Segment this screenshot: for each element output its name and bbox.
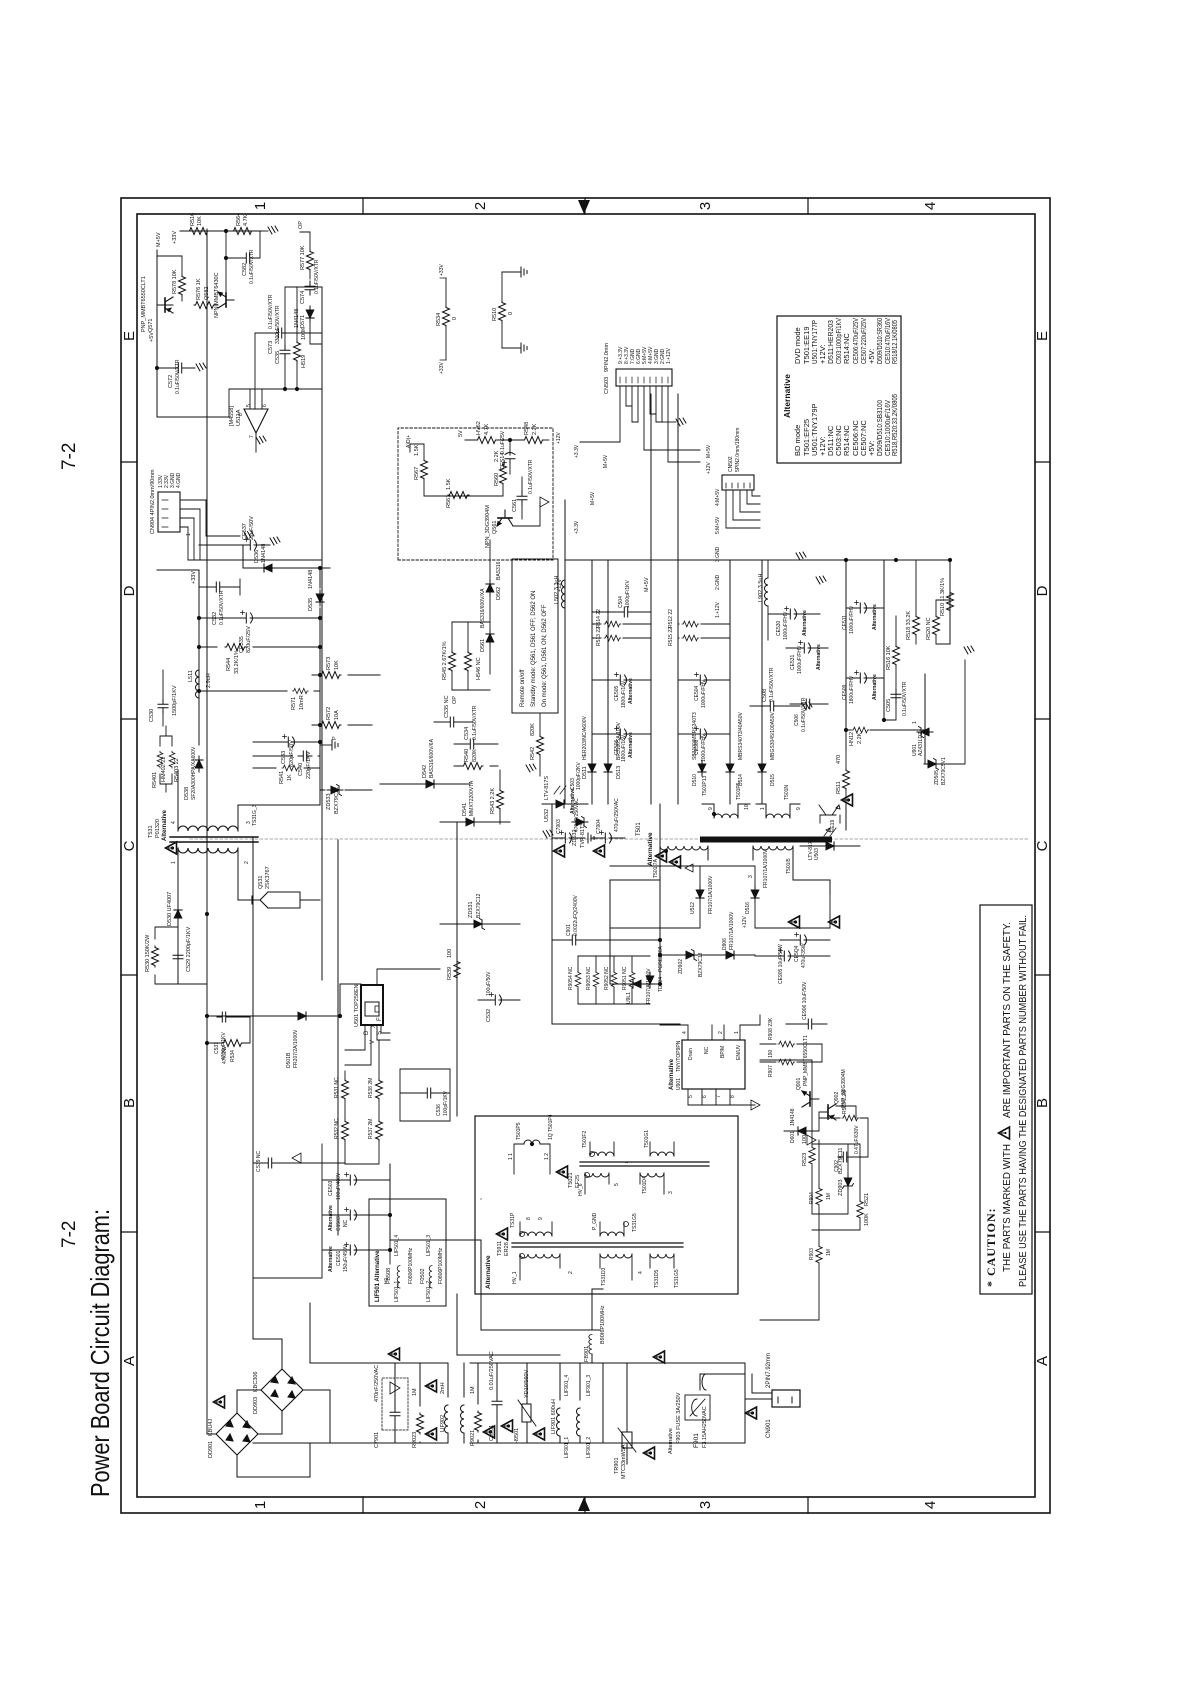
svg-text:2: 2 [568, 1271, 574, 1274]
svg-text:0.1uF/50V/XTR: 0.1uF/50V/XTR [801, 697, 807, 732]
CN502 pin wires [726, 490, 760, 528]
diode D571 1N4148 [306, 306, 314, 322]
svg-text:C561: C561 [512, 499, 518, 512]
svg-text:B: B [121, 1098, 138, 1108]
resistor R564 4.7K [232, 228, 253, 235]
C535 NC cap [445, 717, 459, 727]
wire [226, 1420, 250, 1442]
zener ZD902 BZX79C18 [682, 950, 698, 961]
svg-text:2.2K: 2.2K [857, 732, 863, 744]
cap CS39 NC [263, 1158, 277, 1168]
svg-text:D601: D601 [790, 1131, 796, 1143]
svg-text:C: C [121, 840, 138, 851]
wire [309, 232, 311, 287]
svg-text:R571: R571 [291, 697, 297, 710]
svg-text:LTV-817S: LTV-817S [808, 837, 814, 860]
zone tick left 1/2 [363, 1497, 808, 1513]
cap C531 4700pF/1KV [217, 1012, 231, 1022]
svg-text:100K: 100K [864, 1213, 870, 1226]
svg-text:Alternative: Alternative [485, 1255, 492, 1289]
diode D601 1N4148 [794, 1127, 810, 1135]
svg-text:7: 7 [249, 435, 255, 438]
wires bridge to rails [207, 1339, 330, 1477]
wire [243, 544, 270, 546]
svg-text:9PIN2.0mm: 9PIN2.0mm [604, 343, 610, 372]
svg-text:D538: D538 [184, 787, 190, 800]
wire [600, 1222, 624, 1236]
wire sec bottom to rail [238, 790, 320, 805]
diode U9L1 FR107 [629, 980, 645, 988]
safety triangle [654, 1351, 665, 1363]
svg-text:R567: R567 [414, 467, 420, 480]
svg-text:0.47uF/630V: 0.47uF/630V [854, 1125, 860, 1154]
op-amp wires [157, 389, 322, 452]
svg-text:10K: 10K [197, 216, 203, 226]
svg-text:HER203/NC/A600V: HER203/NC/A600V [582, 715, 588, 760]
svg-text:F903 FUSE 3A/250V: F903 FUSE 3A/250V [676, 1392, 682, 1444]
resistor R573 10K [320, 672, 341, 679]
wire [824, 828, 836, 836]
wire [262, 230, 268, 232]
svg-text:+5V: +5V [149, 332, 155, 342]
svg-text:R9052 NC: R9052 NC [604, 966, 610, 990]
wire [745, 1374, 772, 1399]
svg-text:R530 150K/2W: R530 150K/2W [145, 934, 151, 972]
svg-text:2PIN7.92mm: 2PIN7.92mm [766, 1353, 772, 1388]
svg-text:0.0022uFQ/2400V: 0.0022uFQ/2400V [573, 894, 579, 936]
resistor R510 11.3K [947, 591, 954, 612]
wire [678, 679, 730, 681]
svg-text:BZX79C18: BZX79C18 [698, 952, 704, 977]
wire [502, 465, 504, 496]
svg-text:4: 4 [922, 202, 939, 210]
svg-text:R521: R521 [864, 1193, 870, 1206]
cap CE504b [795, 933, 810, 946]
svg-text:LIF901_1: LIF901_1 [564, 1437, 570, 1458]
svg-text:R903: R903 [809, 1248, 815, 1260]
svg-text:5: 5 [246, 404, 252, 407]
resistor R534 47K/2W [222, 1040, 243, 1047]
IC U501 TNY179P thick box [361, 985, 383, 1025]
svg-text:T5021: T5021 [568, 1172, 574, 1188]
winding TS31D5 [650, 1254, 674, 1258]
pol caps CE504 CE508 [695, 673, 710, 686]
long rail y=322 [321, 287, 323, 980]
svg-text:TVR-81TS: TVR-81TS [580, 822, 586, 848]
svg-text:ZD532: ZD532 [572, 829, 578, 846]
C534 cap [465, 739, 479, 749]
wire [702, 804, 750, 818]
wire [539, 714, 541, 776]
wire [157, 367, 195, 369]
wire [700, 1373, 745, 1375]
wire x=354 [481, 1329, 600, 1331]
wire [300, 232, 310, 279]
svg-text:NPN_3DG3904M: NPN_3DG3904M [485, 505, 491, 548]
svg-text:47K/2W: 47K/2W [222, 1046, 228, 1064]
safety mark [389, 1348, 400, 1360]
svg-text:C1503: C1503 [336, 1216, 342, 1231]
svg-text:FR107/1A/1000V: FR107/1A/1000V [763, 849, 769, 888]
svg-text:R523: R523 [802, 1153, 808, 1166]
wire [592, 733, 651, 735]
wire [390, 1382, 400, 1394]
safety mark [594, 845, 605, 857]
opto U503 LTV-817S crossing isolation [822, 842, 838, 850]
svg-text:R9051 NC: R9051 NC [622, 966, 628, 990]
svg-text:3: 3 [748, 875, 754, 878]
svg-text:10: 10 [744, 804, 750, 810]
svg-text:F901: F901 [693, 1433, 700, 1448]
svg-text:P: P [332, 736, 338, 740]
diode D538 SF20A300HPA [195, 756, 203, 772]
svg-text:C508: C508 [762, 689, 768, 702]
wire [312, 674, 380, 676]
svg-text:CE530: CE530 [776, 620, 782, 636]
svg-text:CE510:1000uF/16V: CE510:1000uF/16V [883, 400, 892, 456]
svg-text:1N4148: 1N4148 [294, 309, 300, 328]
resistor [169, 751, 175, 768]
svg-text:+33V: +33V [191, 571, 197, 584]
svg-text:Alternative: Alternative [570, 788, 576, 814]
wire [162, 670, 164, 726]
svg-text:7-2: 7-2 [59, 443, 80, 470]
junction [155, 366, 158, 369]
wire [520, 1222, 552, 1236]
svg-text:D511: D511 [582, 766, 588, 779]
svg-text:1: 1 [734, 1031, 740, 1034]
ground [588, 833, 594, 843]
cap C574 [305, 281, 315, 295]
svg-text:4: 4 [682, 1031, 688, 1034]
svg-text:R542: R542 [530, 747, 536, 760]
R515 R516n 22 [682, 635, 699, 641]
capacitor [345, 1173, 360, 1186]
outer border frame [121, 198, 1050, 1513]
svg-text:R511: R511 [836, 781, 842, 794]
cap CES14 [503, 450, 516, 465]
resistor R560 2.2K [500, 464, 507, 485]
svg-text:TS31D3: TS31D3 [601, 1267, 607, 1286]
svg-text:DD903: DD903 [253, 1397, 259, 1414]
secondary TS31P [520, 1232, 552, 1236]
wire [188, 536, 322, 560]
zone tick bottom [1035, 462, 1050, 1232]
wire [578, 956, 650, 1004]
svg-text:D906: D906 [722, 938, 728, 950]
svg-text:R9021: R9021 [470, 1430, 476, 1446]
T5021 windings right [590, 1152, 614, 1156]
wire [756, 804, 800, 818]
svg-text:C535: C535 [275, 351, 281, 364]
svg-text:D571: D571 [300, 315, 306, 328]
cap C504 1000pF/1KV [619, 607, 633, 617]
wire [454, 765, 498, 767]
wire [784, 1099, 868, 1157]
inductor winding [429, 1266, 432, 1288]
svg-text:Standby mode: Q561, D561 OFF;: Standby mode: Q561, D561 OFF; D562 ON [531, 591, 537, 707]
inductor winding [577, 1408, 581, 1436]
svg-text:R514 22: R514 22 [596, 609, 602, 628]
wire [470, 1363, 603, 1443]
wire [767, 560, 769, 640]
svg-text:9: 9 [538, 1217, 544, 1220]
svg-text:Drain: Drain [688, 1048, 694, 1060]
ground [521, 343, 527, 353]
ground [526, 764, 536, 772]
svg-text:F0806P100MHz: F0806P100MHz [438, 1247, 444, 1284]
line filter LIF902 2mH [445, 1405, 449, 1433]
svg-text:MBRS340T3/40A50V: MBRS340T3/40A50V [738, 712, 744, 760]
zener ZD903 BZX79C11 [843, 1174, 854, 1190]
ground [543, 830, 553, 838]
svg-text:1K: 1K [287, 774, 293, 781]
svg-text:470uF/250VAC: 470uF/250VAC [614, 798, 620, 832]
svg-text:BZX79C11: BZX79C11 [838, 1148, 844, 1175]
ground [268, 226, 278, 234]
svg-text:R9053 NC: R9053 NC [586, 966, 592, 990]
svg-text:0: 0 [508, 312, 514, 315]
junction [712, 812, 715, 815]
wire [255, 451, 257, 453]
wire [285, 286, 322, 288]
wire [751, 1100, 760, 1110]
svg-text:R576 1K: R576 1K [196, 278, 202, 300]
svg-text:D535: D535 [308, 598, 314, 611]
svg-text:LIF501_2: LIF501_2 [426, 1281, 432, 1302]
long rails [551, 804, 553, 1024]
wire [514, 1144, 550, 1174]
svg-text:7: 7 [716, 1095, 722, 1098]
svg-text:CE510:470uF/16V: CE510:470uF/16V [883, 318, 892, 364]
resistor R518 33.2K [913, 615, 920, 636]
svg-text:9: 9 [796, 807, 802, 810]
svg-text:HN12: HN12 [849, 732, 855, 746]
svg-text:C573: C573 [268, 341, 274, 354]
resistor grid R531 R532 R538 R537 [342, 1079, 349, 1100]
svg-text:R578 10K: R578 10K [172, 269, 178, 294]
svg-text:R537 2M: R537 2M [368, 1119, 374, 1139]
svg-text:FR107/1A/1000V: FR107/1A/1000V [708, 875, 714, 914]
resistor R511 470 [843, 769, 850, 790]
wire [726, 483, 750, 488]
svg-text:H546 NC: H546 NC [476, 657, 482, 680]
svg-text:6: 6 [262, 404, 268, 407]
svg-text:U9L1: U9L1 [626, 992, 632, 1004]
wire [456, 924, 458, 1002]
wire [760, 1044, 822, 1062]
svg-text:4.7K: 4.7K [243, 214, 249, 226]
wire [768, 613, 820, 615]
svg-text:R907: R907 [768, 1065, 774, 1077]
svg-text:4: 4 [638, 1271, 644, 1274]
wire [650, 1142, 674, 1156]
resistor R576 1K [194, 302, 215, 309]
svg-text:A: A [121, 1356, 138, 1366]
wire [936, 600, 950, 644]
resistor R572 10A [320, 722, 341, 729]
resistor R523 100 [809, 1146, 815, 1165]
svg-text:3: 3 [697, 1501, 714, 1509]
resistor [816, 1245, 822, 1264]
pol caps CE505 CE506 [615, 673, 630, 686]
wire [214, 304, 218, 306]
zener ZD533 BZX79C12 [327, 785, 343, 796]
svg-text:1: 1 [760, 807, 766, 810]
svg-text:Q571: Q571 [148, 319, 154, 332]
svg-text:PNP_MMBT6550CLT1: PNP_MMBT6550CLT1 [803, 1035, 809, 1086]
svg-text:R5403 22: R5403 22 [174, 758, 180, 782]
wire [207, 1017, 250, 1043]
X-cap dashed box CX901 [382, 1378, 408, 1430]
resistor [629, 971, 635, 988]
svg-text:R545 2.67K/1%: R545 2.67K/1% [442, 641, 448, 680]
resistors R5401 HM402 R5403 22 [157, 751, 163, 768]
svg-text:2: 2 [244, 861, 250, 864]
ground [676, 418, 686, 426]
wire [310, 322, 322, 344]
resistor R567 1.5K [421, 459, 428, 480]
svg-text:C530: C530 [149, 709, 155, 722]
svg-text:Q561: Q561 [492, 521, 498, 534]
T5911 core double line [512, 1243, 683, 1247]
resistor R534 0 [445, 278, 447, 360]
svg-text:6: 6 [702, 1095, 708, 1098]
wire [580, 442, 700, 462]
wire [292, 1153, 301, 1163]
T501 primary winding upper [660, 846, 708, 850]
center arrow right [578, 200, 590, 214]
capacitor [390, 1407, 400, 1421]
svg-text:LIF501_4: LIF501_4 [394, 1235, 400, 1256]
svg-text:T501G1: T501G1 [644, 1130, 650, 1148]
svg-text:D562: D562 [496, 587, 502, 600]
resistor R510 0 [501, 272, 503, 348]
resistor R541 1K [282, 765, 299, 771]
R543 2.2K [497, 789, 504, 810]
junction [508, 438, 511, 441]
svg-text:CE511: CE511 [842, 615, 848, 630]
diode D561 BAS316 [486, 630, 494, 646]
resistor R544 33.2K/1% [225, 644, 246, 651]
svg-text:R572: R572 [326, 707, 332, 720]
wire [489, 540, 491, 674]
pol cap CE530 Alternative [785, 607, 800, 620]
bridge rectifier D903 KBC306 [261, 1369, 303, 1411]
diode D530 [174, 906, 182, 922]
diode D535 1N4148 [316, 590, 324, 606]
resistor R545 2.67K/1% [449, 651, 456, 672]
svg-text:C505: C505 [886, 699, 892, 712]
svg-text:1800uF/16V: 1800uF/16V [621, 680, 627, 708]
wire [454, 743, 498, 745]
wire [610, 866, 700, 928]
svg-text:470nF/250VAC: 470nF/250VAC [374, 1365, 380, 1402]
pol cap CE535 820uF/25V [241, 611, 256, 624]
cap C530 1500pF/1KV [158, 699, 168, 713]
aux wire from T501 [610, 880, 830, 928]
svg-text:T501I5: T501I5 [786, 858, 792, 874]
wire [800, 845, 860, 847]
wire [925, 660, 965, 764]
wire [895, 689, 897, 720]
svg-text:SB3100/MBRS340T3: SB3100/MBRS340T3 [692, 712, 698, 760]
wire [160, 726, 172, 792]
wire [521, 477, 523, 519]
safety mark [842, 794, 853, 806]
svg-text:D: D [1034, 585, 1051, 596]
svg-text:P_GND: P_GND [592, 1212, 598, 1230]
svg-text:1000uF/FHV: 1000uF/FHV [849, 605, 855, 634]
wire [660, 954, 755, 956]
svg-text:D561: D561 [480, 639, 486, 652]
pin [590, 1152, 595, 1157]
wire [276, 892, 320, 908]
svg-text:1M: 1M [470, 1386, 476, 1394]
svg-text:R510: R510 [492, 308, 498, 321]
inductor winding [397, 1266, 400, 1288]
svg-text:1: 1 [252, 202, 269, 210]
resistor [604, 621, 621, 627]
svg-text:C7904: C7904 [596, 819, 602, 834]
wire [178, 868, 238, 984]
resistor [443, 306, 450, 327]
svg-text:0.1uF/50V/XTR: 0.1uF/50V/XTR [472, 705, 478, 740]
wire [271, 1376, 295, 1398]
wire [640, 1173, 664, 1177]
ferrite bead FB901 [589, 1334, 592, 1354]
wire [590, 1142, 614, 1156]
resistor [376, 1079, 383, 1100]
resistor R516 10K [893, 645, 900, 666]
Y-cap C7904 [600, 831, 615, 844]
svg-text:7-2: 7-2 [59, 1221, 80, 1248]
cap C573 [273, 328, 287, 338]
wire [620, 377, 668, 383]
svg-text:C531: C531 [214, 1042, 220, 1054]
svg-text:R534: R534 [436, 313, 442, 326]
svg-text:LIF501_3: LIF501_3 [426, 1235, 432, 1256]
cap C535 3300pF [280, 345, 290, 359]
svg-text:CE505: CE505 [614, 685, 620, 701]
wire [592, 624, 651, 638]
svg-text:SF20A300HPA/XA600V: SF20A300HPA/XA600V [191, 746, 197, 800]
svg-text:R515 22: R515 22 [668, 627, 674, 646]
svg-text:R544: R544 [226, 658, 232, 671]
resistor R577 10K [307, 250, 314, 271]
svg-text:R538 2M: R538 2M [368, 1078, 374, 1098]
wire [552, 1023, 680, 1025]
wire [678, 679, 751, 681]
svg-text:33.2K/1%: 33.2K/1% [234, 650, 240, 674]
svg-text:R5401: R5401 [152, 772, 158, 788]
svg-text:2: 2 [718, 1031, 724, 1034]
svg-text:CE506: CE506 [614, 739, 620, 755]
wire [750, 705, 800, 707]
ground P [332, 740, 338, 750]
wire [690, 1399, 705, 1416]
wire [509, 440, 511, 474]
R540 820K [462, 763, 483, 770]
wire [178, 848, 238, 868]
center arrow left [578, 1497, 590, 1511]
wire [600, 1254, 632, 1280]
resistor R562 4.7K [476, 437, 497, 444]
svg-text:T531: T531 [148, 825, 154, 838]
svg-text:D536: D536 [254, 550, 260, 563]
pol cap CE511 [855, 601, 870, 614]
junction [530, 1142, 533, 1145]
